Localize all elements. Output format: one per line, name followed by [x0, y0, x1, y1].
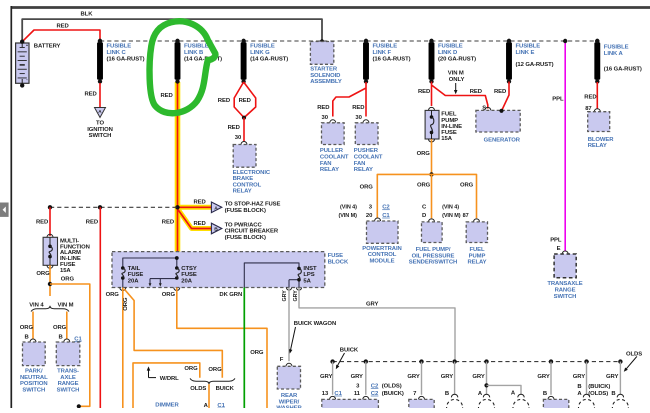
wire GRY inst lps to lamp bus: [293, 288, 455, 362]
svg-text:B: B: [59, 335, 63, 341]
wire ORG to park/neutral position switch: [20, 312, 34, 341]
svg-text:BRAKE: BRAKE: [233, 176, 254, 182]
svg-text:(VIN M): (VIN M): [442, 213, 461, 219]
svg-text:BLOCK: BLOCK: [328, 260, 349, 266]
svg-text:(OLDS): (OLDS): [382, 383, 402, 389]
svg-text:VIN 4: VIN 4: [29, 303, 44, 309]
svg-text:AXLE: AXLE: [60, 375, 76, 381]
node link F top: [364, 39, 368, 43]
fusible link G: [241, 39, 289, 84]
svg-text:INST: INST: [303, 266, 317, 272]
svg-text:CONTROL: CONTROL: [368, 252, 397, 258]
connector box bottom left: [322, 399, 379, 409]
svg-text:B: B: [445, 391, 449, 397]
generator: [476, 107, 521, 143]
svg-text:TAIL: TAIL: [128, 266, 141, 272]
wire RED link F to cooling fan relays: [317, 82, 366, 121]
svg-text:TRANS-: TRANS-: [57, 368, 79, 374]
svg-text:POSITION: POSITION: [20, 381, 48, 387]
lamp 4: [579, 394, 595, 413]
svg-text:(OLDS): (OLDS): [588, 391, 608, 397]
svg-text:GRY: GRY: [293, 290, 299, 302]
transaxle range switch: [547, 251, 582, 300]
node bus middle: [98, 205, 102, 209]
svg-text:NEUTRAL: NEUTRAL: [20, 375, 48, 381]
svg-text:BATTERY: BATTERY: [34, 44, 61, 50]
svg-text:20A: 20A: [181, 278, 192, 284]
battery: [16, 40, 61, 88]
svg-text:FUSIBLE: FUSIBLE: [604, 44, 629, 50]
fuse TAIL 20A: [121, 266, 143, 284]
svg-text:RED: RED: [317, 105, 329, 111]
fusible link C: [97, 39, 145, 84]
wire RED trunk link B down to fuse block: [161, 82, 212, 258]
node trunk junction: [175, 205, 179, 209]
svg-text:RANGE: RANGE: [58, 381, 79, 387]
svg-text:GRY: GRY: [366, 301, 378, 307]
svg-text:GRY: GRY: [320, 374, 332, 380]
svg-text:GRY: GRY: [407, 374, 419, 380]
svg-text:B: B: [214, 227, 218, 233]
svg-text:(VIN M): (VIN M): [339, 213, 358, 219]
svg-text:RED: RED: [584, 94, 596, 100]
fuel pump relay: [463, 213, 488, 266]
node PPL top: [563, 39, 567, 43]
sidebar collapse tab: [0, 203, 9, 217]
svg-text:IGNITION: IGNITION: [87, 127, 113, 133]
svg-text:(BUICK): (BUICK): [382, 391, 404, 397]
svg-text:D: D: [422, 213, 426, 219]
node link E top: [507, 39, 511, 43]
wire ORG fuel pump fuse output: [417, 139, 432, 174]
svg-text:FUSIBLE: FUSIBLE: [373, 44, 398, 50]
svg-text:VIN M: VIN M: [448, 71, 464, 77]
svg-text:GRY: GRY: [537, 374, 549, 380]
svg-text:(20 GA-RUST): (20 GA-RUST): [438, 56, 476, 62]
arrow A to ignition switch: [87, 108, 113, 140]
svg-text:(16 GA-RUST): (16 GA-RUST): [604, 66, 642, 72]
svg-text:ORG: ORG: [53, 325, 67, 331]
svg-text:CTSY: CTSY: [181, 266, 197, 272]
wire ORG multi-function fuse output: [36, 265, 74, 296]
svg-text:W/DRL: W/DRL: [160, 376, 179, 382]
arrow B to pwr/acc circuit breaker: [211, 222, 278, 241]
wire ORG to dimmer switch: [204, 384, 226, 409]
svg-text:FUEL: FUEL: [469, 247, 485, 253]
svg-text:FUSIBLE: FUSIBLE: [250, 44, 275, 50]
fuel pump/oil pressure sender/switch: [409, 205, 461, 266]
svg-text:ORG: ORG: [162, 292, 176, 298]
svg-text:RELAY: RELAY: [588, 143, 607, 149]
svg-text:LINK A: LINK A: [604, 51, 624, 57]
svg-text:LINK C: LINK C: [107, 50, 127, 56]
starter solenoid assembly: [310, 39, 342, 85]
svg-text:OLDS: OLDS: [190, 386, 206, 392]
wire GRY to rear wiper washer: [282, 288, 292, 362]
svg-text:(16 GA-RUST): (16 GA-RUST): [107, 56, 145, 62]
svg-text:SWITCH: SWITCH: [22, 387, 45, 393]
electronic brake control relay: [233, 142, 271, 195]
svg-text:BUICK: BUICK: [340, 348, 359, 354]
node bus 1: [320, 359, 343, 399]
svg-text:LINK G: LINK G: [250, 50, 270, 56]
svg-text:20: 20: [366, 213, 373, 219]
svg-text:RED: RED: [162, 220, 174, 226]
svg-text:RED: RED: [239, 98, 251, 104]
wire ORG branch down to sender: [417, 174, 432, 218]
svg-text:30: 30: [355, 115, 362, 121]
svg-text:SENDER/SWITCH: SENDER/SWITCH: [409, 260, 457, 266]
svg-text:LINK D: LINK D: [438, 50, 457, 56]
node bus 3: [407, 359, 424, 399]
svg-text:LINK B: LINK B: [184, 50, 203, 56]
svg-text:(16 GA-RUST): (16 GA-RUST): [373, 56, 411, 62]
node ORG junction: [48, 282, 52, 286]
svg-text:FUSIBLE: FUSIBLE: [516, 44, 541, 50]
svg-text:ORG: ORG: [208, 367, 222, 373]
svg-text:DIMMER: DIMMER: [155, 402, 179, 408]
svg-text:GRY: GRY: [351, 374, 363, 380]
node bus 6: [537, 359, 554, 399]
fuel pump in-line fuse 15A: [425, 107, 462, 142]
svg-text:13: 13: [322, 391, 329, 397]
svg-text:RELAY: RELAY: [233, 189, 252, 195]
note VIN M ONLY: [448, 71, 465, 95]
svg-text:RED: RED: [85, 92, 97, 98]
node link G top: [241, 39, 245, 43]
svg-text:GRY: GRY: [606, 374, 618, 380]
svg-text:FUSE: FUSE: [128, 272, 144, 278]
highlight trunk yellow: [178, 82, 212, 258]
svg-text:BUICK WAGON: BUICK WAGON: [294, 321, 336, 327]
svg-text:FAN: FAN: [320, 161, 332, 167]
svg-text:B: B: [25, 335, 29, 341]
park/neutral position switch: [20, 339, 48, 393]
lamp 1: [447, 394, 463, 413]
fusible link A: [594, 39, 642, 84]
svg-text:LINK E: LINK E: [516, 50, 535, 56]
svg-text:PUSHER: PUSHER: [354, 148, 379, 154]
svg-text:CIRCUIT BREAKER: CIRCUIT BREAKER: [225, 229, 279, 235]
svg-text:B: B: [577, 384, 581, 390]
svg-text:ORG: ORG: [184, 366, 198, 372]
lamp 2: [479, 394, 495, 413]
fusible link B: [175, 39, 223, 84]
svg-text:FUSIBLE: FUSIBLE: [107, 44, 132, 50]
svg-text:COOLANT: COOLANT: [320, 155, 349, 161]
svg-text:B: B: [611, 391, 615, 397]
node bus 5: [472, 359, 521, 396]
svg-text:TO STOP-HAZ FUSE: TO STOP-HAZ FUSE: [225, 201, 281, 207]
svg-text:11: 11: [354, 391, 361, 397]
svg-text:FUEL PUMP/: FUEL PUMP/: [416, 247, 451, 253]
svg-text:5A: 5A: [303, 278, 311, 284]
merge brace OLDS / BUICK: [190, 378, 235, 392]
border frame top: [11, 6, 650, 9]
fuse CTSY 20A: [175, 266, 197, 284]
svg-text:(VIN 4): (VIN 4): [340, 205, 357, 211]
node bus 8: [606, 359, 623, 397]
svg-text:RED: RED: [418, 89, 430, 95]
svg-text:E: E: [557, 246, 561, 252]
svg-text:COOLANT: COOLANT: [354, 155, 383, 161]
note W/DRL: [147, 366, 179, 382]
fuse INST LPS 5A: [297, 266, 317, 284]
svg-text:87: 87: [463, 213, 469, 219]
bottom dashed bus: [333, 361, 621, 363]
svg-text:DK GRN: DK GRN: [219, 292, 242, 298]
svg-text:CONTROL: CONTROL: [233, 182, 262, 188]
split brace VIN 4 / VIN M: [29, 303, 73, 312]
node link D top: [429, 39, 433, 43]
wire RED middle down: [86, 207, 101, 408]
note OLDS pointer: [622, 352, 642, 373]
connector box 3: [543, 399, 568, 409]
svg-text:BLOWER: BLOWER: [588, 137, 615, 143]
node link C top: [98, 39, 102, 43]
wire ORG from below to OLDS dimmer: [133, 363, 200, 408]
svg-text:C1: C1: [217, 403, 225, 408]
node ORG fuel junction: [429, 172, 433, 176]
svg-text:BUICK: BUICK: [216, 386, 235, 392]
fuse block internal wiring: [123, 256, 299, 287]
wire ORG to powertrain control module: [360, 174, 432, 218]
svg-text:REAR: REAR: [281, 393, 298, 399]
svg-text:GRY: GRY: [441, 374, 453, 380]
wire RED link C to ignition switch: [85, 83, 101, 108]
svg-text:RELAY: RELAY: [354, 167, 373, 173]
svg-text:30: 30: [235, 135, 242, 141]
blower relay: [588, 109, 615, 149]
node bus 2: [351, 359, 404, 399]
svg-text:TO PWR/ACC: TO PWR/ACC: [225, 222, 263, 228]
svg-text:STARTER: STARTER: [310, 67, 338, 73]
svg-text:15A: 15A: [441, 136, 452, 142]
svg-text:RED: RED: [194, 221, 206, 227]
svg-text:GRY: GRY: [472, 374, 484, 380]
svg-text:RED: RED: [86, 220, 98, 226]
multi-function alarm in-line fuse 15A: [43, 234, 90, 274]
svg-text:ONLY: ONLY: [449, 77, 465, 83]
node diamond bottom: [242, 116, 246, 120]
svg-text:ORG: ORG: [61, 277, 75, 283]
svg-text:(12 GA-RUST): (12 GA-RUST): [516, 62, 554, 68]
svg-text:PPL: PPL: [552, 97, 564, 103]
svg-text:(VIN 4): (VIN 4): [442, 205, 459, 211]
svg-text:VIN M: VIN M: [58, 303, 74, 309]
lamp 5: [612, 394, 628, 413]
trans-axle range switch: [56, 339, 80, 393]
wire ORG to fuel pump relay: [432, 174, 477, 218]
svg-text:ORG: ORG: [417, 182, 431, 188]
svg-text:F: F: [280, 357, 284, 363]
svg-text:PUMP: PUMP: [469, 253, 486, 259]
dimmer switch label: [155, 402, 179, 413]
svg-text:OLDS: OLDS: [626, 352, 642, 358]
svg-text:SWITCH: SWITCH: [57, 387, 80, 393]
svg-text:TRANSAXLE: TRANSAXLE: [547, 281, 582, 287]
wire RED link D to fuel pump fuse and generator S: [418, 82, 488, 112]
lamp 3: [513, 394, 529, 413]
svg-text:LPS: LPS: [303, 272, 314, 278]
wire RED to multi-function alarm fuse: [36, 207, 50, 236]
fusible link D: [429, 39, 477, 84]
svg-text:FUSIBLE: FUSIBLE: [184, 44, 209, 50]
svg-text:(BUICK): (BUICK): [588, 384, 610, 390]
fusible link E: [506, 39, 554, 84]
annotation green circle around fusible link B: [150, 21, 216, 113]
svg-text:ORG: ORG: [106, 292, 120, 298]
svg-text:MODULE: MODULE: [369, 258, 394, 264]
svg-text:GRY: GRY: [282, 290, 288, 302]
svg-text:A: A: [214, 206, 218, 212]
wire RED diamond under link G: [218, 82, 256, 118]
svg-text:GENERATOR: GENERATOR: [484, 137, 521, 143]
wire ORG ctsy fuse down: [162, 288, 267, 409]
rear wiper/washer: [276, 357, 302, 412]
node link A top: [595, 39, 599, 43]
node bus left: [48, 205, 52, 209]
node bus 4: [441, 359, 457, 397]
svg-text:(FUSE BLOCK): (FUSE BLOCK): [225, 208, 266, 214]
svg-text:FUSE: FUSE: [181, 272, 197, 278]
wire RED to electronic brake control relay: [228, 118, 244, 142]
powertrain control module: [339, 205, 402, 265]
wire ORG tail fuse straight down: [106, 288, 126, 409]
svg-text:LINK F: LINK F: [373, 50, 392, 56]
wire ORG tail fuse to BUICK dimmer: [123, 289, 223, 378]
connector box 2: [409, 399, 434, 409]
svg-text:POWERTRAIN: POWERTRAIN: [362, 246, 401, 252]
svg-text:PPL: PPL: [550, 238, 562, 244]
svg-text:SWITCH: SWITCH: [89, 133, 112, 139]
svg-text:BLK: BLK: [81, 12, 94, 18]
svg-text:OIL PRESSURE: OIL PRESSURE: [412, 253, 455, 259]
svg-text:WIPER/: WIPER/: [279, 399, 300, 405]
svg-text:FUSIBLE: FUSIBLE: [438, 44, 463, 50]
svg-text:RED: RED: [57, 24, 69, 30]
svg-text:RED: RED: [161, 93, 173, 99]
node link B top: [175, 39, 179, 43]
svg-text:ORG: ORG: [20, 325, 34, 331]
svg-text:FUSE: FUSE: [328, 253, 344, 259]
svg-text:ORG: ORG: [360, 184, 374, 190]
wire RED battery to fusible link C: [22, 24, 100, 42]
arrow A to stop-haz fuse: [211, 201, 280, 214]
note BUICK WAGON: [288, 321, 336, 354]
svg-text:15A: 15A: [60, 268, 71, 274]
svg-text:RED: RED: [218, 98, 230, 104]
middle dashed bus: [50, 206, 178, 208]
svg-text:ORG: ORG: [36, 271, 50, 277]
svg-text:ORG: ORG: [417, 151, 431, 157]
svg-text:PARK/: PARK/: [25, 368, 43, 374]
svg-text:ELECTRONIC: ELECTRONIC: [233, 170, 271, 176]
node ORG end bottom: [77, 404, 81, 408]
wire ORG to trans-axle range switch: [53, 312, 82, 343]
wire DK GRN inst lps feed: [219, 288, 244, 409]
node bus 7: [573, 359, 611, 397]
svg-text:RED: RED: [470, 89, 482, 95]
svg-text:ORG: ORG: [123, 297, 129, 311]
svg-text:(14 GA-RUST): (14 GA-RUST): [250, 56, 288, 62]
svg-text:TO: TO: [96, 121, 104, 127]
wire RED link E to generator: [494, 82, 509, 112]
svg-text:FAN: FAN: [354, 161, 366, 167]
wire RED link A to blower relay: [584, 82, 597, 112]
svg-text:30: 30: [322, 115, 329, 121]
svg-text:GRY: GRY: [573, 374, 585, 380]
svg-text:RELAY: RELAY: [467, 260, 486, 266]
wire PPL to transaxle range switch: [550, 41, 565, 252]
svg-text:SWITCH: SWITCH: [554, 294, 577, 300]
svg-text:RED: RED: [228, 125, 240, 131]
svg-text:ORG: ORG: [250, 350, 264, 356]
svg-text:(FUSE BLOCK): (FUSE BLOCK): [225, 235, 266, 241]
wire ORG branch to bottom left: [50, 284, 90, 406]
fusible link F: [363, 39, 411, 84]
svg-text:PULLER: PULLER: [320, 148, 344, 154]
svg-text:B: B: [543, 391, 547, 397]
puller coolant fan relay: [320, 120, 349, 173]
fuse block: [112, 252, 349, 288]
svg-text:RELAY: RELAY: [320, 167, 339, 173]
wire BLK battery to starter solenoid: [22, 12, 322, 42]
svg-text:SOLENOID: SOLENOID: [310, 73, 340, 79]
border frame left: [10, 6, 12, 408]
svg-text:20A: 20A: [128, 278, 139, 284]
top dashed bus: [100, 40, 598, 42]
svg-text:ORG: ORG: [460, 182, 474, 188]
svg-text:RED: RED: [194, 199, 206, 205]
svg-text:RED: RED: [352, 105, 364, 111]
note BUICK pointer: [334, 348, 359, 371]
svg-text:RANGE: RANGE: [555, 288, 576, 294]
svg-text:RED: RED: [494, 89, 506, 95]
pusher coolant fan relay: [354, 120, 383, 173]
svg-text:RED: RED: [36, 220, 48, 226]
svg-text:ASSEMBLY: ASSEMBLY: [310, 79, 342, 85]
